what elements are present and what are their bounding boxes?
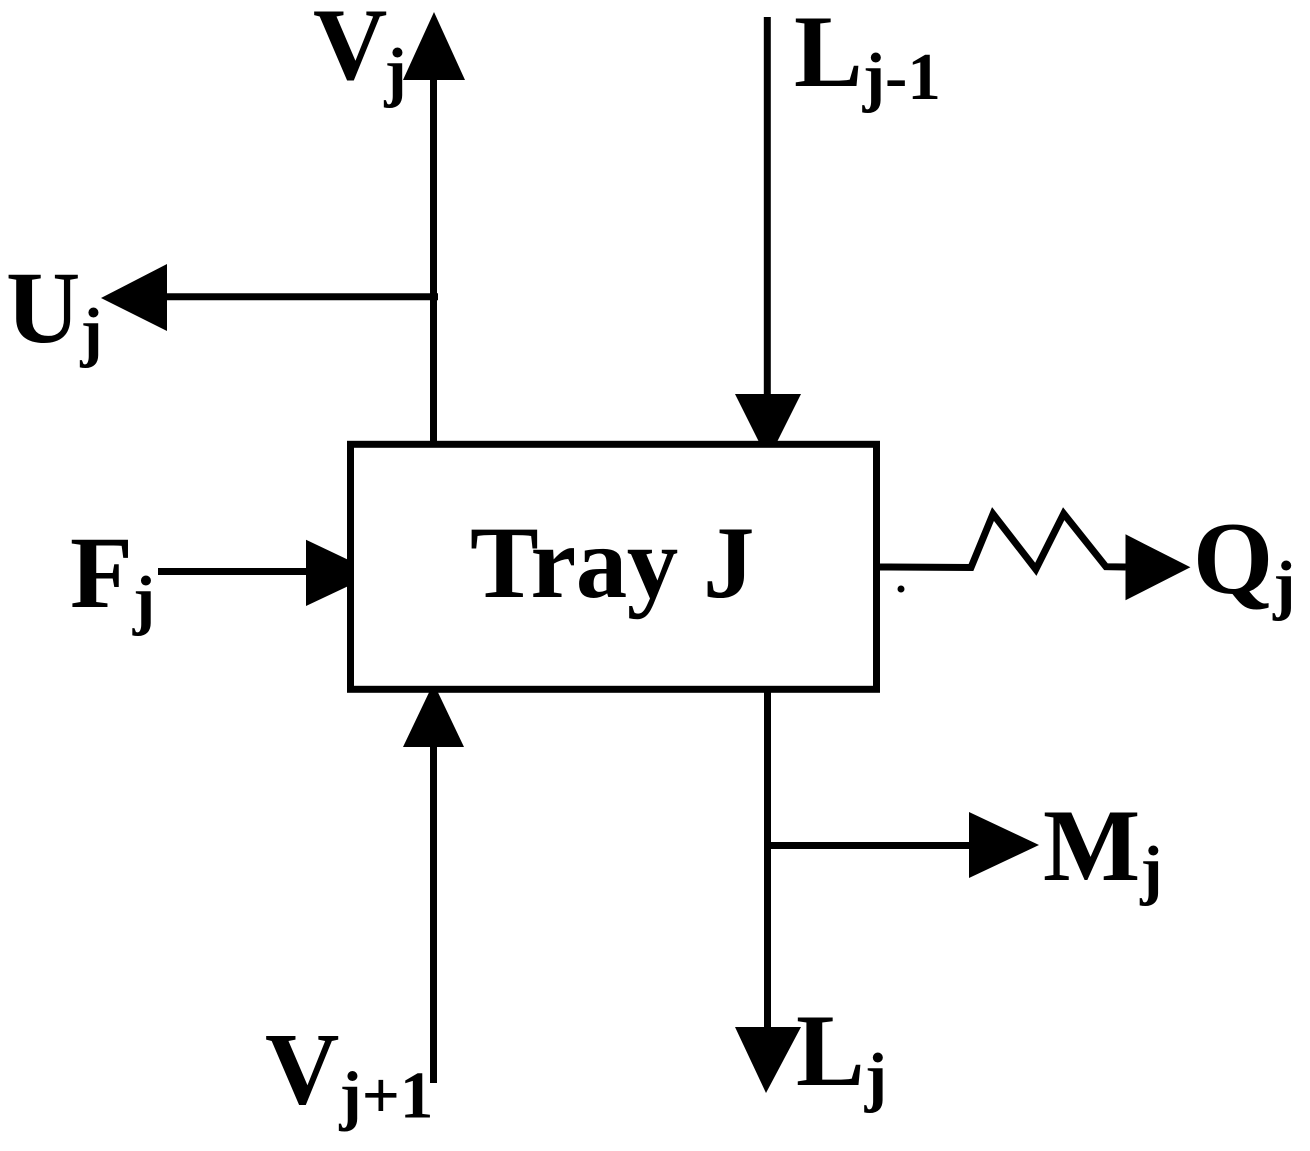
- svg-text:Vj+1: Vj+1: [265, 1013, 433, 1133]
- wire Qj heat duty with resistor zigzag (horizontal, out of tray right side): [880, 514, 1126, 570]
- wire Lj-1 liquid feed from tray above (vertical, down into tray top): [764, 17, 771, 400]
- svg-text:Lj: Lj: [796, 994, 887, 1114]
- svg-text:Lj-1: Lj-1: [794, 0, 941, 114]
- wire Uj liquid sidedraw (horizontal, leftwards): [164, 293, 438, 300]
- arrowhead Vj (points up): [403, 12, 465, 80]
- arrowhead Vj+1 (points up, tip under tray border): [403, 683, 464, 747]
- arrowhead Lj-1 (points down, tip under tray border): [735, 394, 801, 460]
- arrowhead Mj (points right): [969, 812, 1039, 878]
- svg-text:Fj: Fj: [70, 516, 155, 637]
- svg-text:Uj: Uj: [6, 251, 103, 369]
- tray block Tray J (white fill covers arrow tips): [351, 444, 877, 689]
- svg-text:Qj: Qj: [1193, 502, 1295, 622]
- wire Lj liquid outlet (vertical, down from tray bottom): [764, 688, 771, 1030]
- arrowhead Qj (points right): [1126, 534, 1191, 600]
- wire Fj feed (horizontal, into tray left side): [158, 568, 310, 575]
- arrowhead Lj (points down): [735, 1027, 801, 1093]
- wire Vj vapor outlet (vertical, up from tray top): [430, 78, 437, 447]
- arrowhead Uj (points left): [101, 264, 167, 331]
- wire Mj vapor sidedraw (horizontal, rightwards from Lj wire): [768, 842, 973, 849]
- wire Vj+1 vapor feed from tray below (vertical, up into tray bottom): [430, 745, 437, 1083]
- junction dot under Qj wire: [898, 586, 905, 593]
- svg-text:Tray J: Tray J: [470, 506, 754, 620]
- svg-text:Vj: Vj: [313, 0, 407, 109]
- arrowhead Fj (points right, tip under tray border): [306, 540, 376, 606]
- svg-text:Mj: Mj: [1043, 789, 1163, 907]
